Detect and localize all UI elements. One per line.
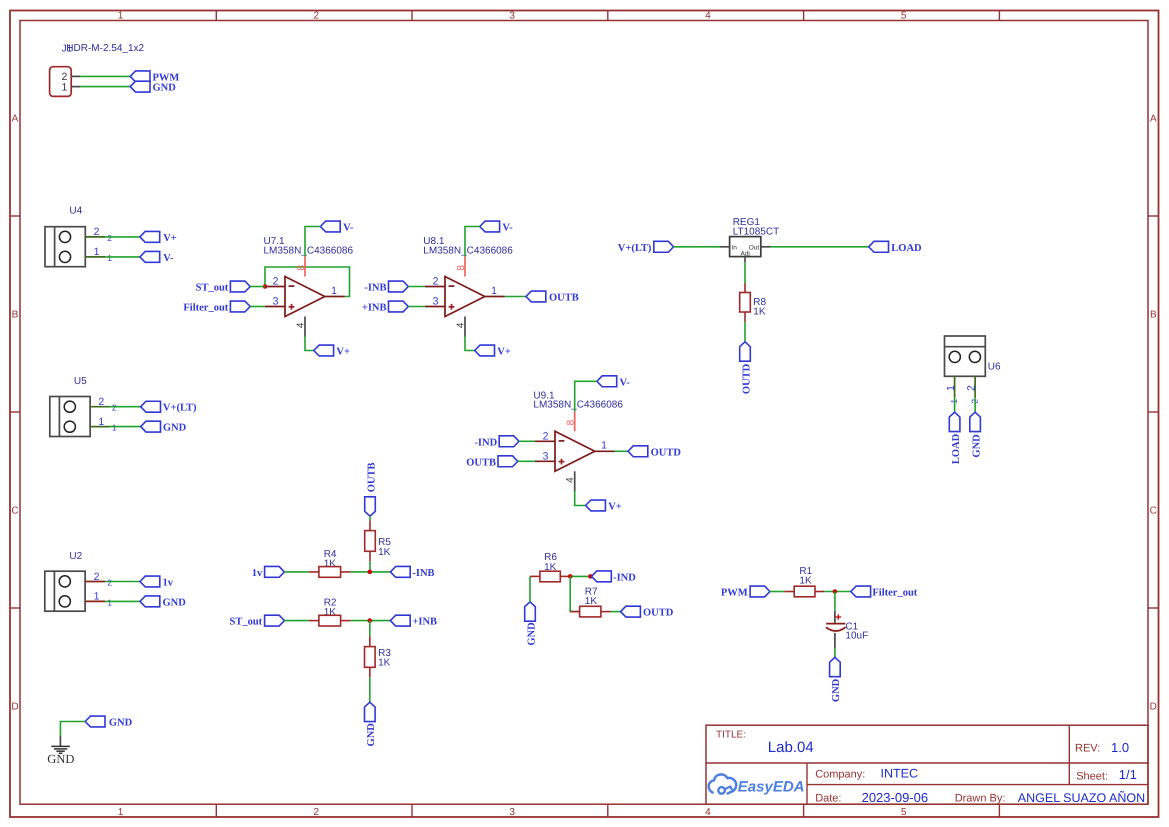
J1 pin 1: [71, 86, 80, 88]
wire U9.1 pin 1 to OUTD: [615, 450, 629, 452]
svg-text:V-: V-: [343, 223, 354, 234]
svg-text:C: C: [11, 506, 18, 517]
wire junction down to C1: [834, 592, 836, 611]
net flag V- (U9.1): [597, 376, 630, 388]
svg-text:1: 1: [94, 591, 100, 603]
svg-text:4: 4: [705, 807, 711, 818]
svg-text:1K: 1K: [378, 658, 391, 669]
svg-text:1: 1: [331, 285, 337, 297]
junction R1/C1/Filter_out: [833, 589, 838, 594]
EasyEDA logo: [709, 774, 805, 795]
U9.1 pin number 3: [543, 451, 549, 463]
ruler column numbers top: [118, 11, 907, 22]
wire REG1 Out to LOAD: [771, 246, 869, 248]
svg-text:GND: GND: [163, 597, 187, 608]
resistor R3: [365, 637, 376, 678]
wire V- to U9.1 pin 8: [575, 381, 597, 411]
svg-text:1: 1: [107, 597, 112, 607]
regulator REG1 body: [730, 237, 761, 258]
svg-text:3: 3: [273, 296, 279, 308]
svg-text:1: 1: [107, 253, 112, 263]
wire J1.2 to PWM: [80, 75, 130, 77]
resistor R5 value 1K: [378, 547, 391, 558]
svg-text:4: 4: [565, 477, 576, 483]
junction after R6: [568, 574, 573, 579]
svg-text:1K: 1K: [585, 596, 598, 607]
svg-text:10uF: 10uF: [845, 631, 868, 642]
wire ST_out to R2: [284, 620, 309, 622]
svg-text:+INB: +INB: [362, 303, 387, 314]
resistor R6 label: [544, 552, 557, 563]
wire U2.2 to 1v: [105, 581, 140, 583]
regulator REG1 value label LT1085CT: [733, 227, 780, 238]
net flag OUTD (U9.1 output): [628, 446, 681, 458]
svg-text:2: 2: [433, 276, 439, 288]
U8.1 pin 8: [464, 257, 466, 277]
net flag OUTB (above R5): [365, 462, 378, 516]
svg-text:In: In: [731, 244, 737, 251]
U8.1 pin number 1: [491, 285, 497, 297]
net flag GND: [140, 596, 186, 608]
svg-text:V+: V+: [163, 233, 177, 244]
resistor R5 label: [378, 537, 391, 548]
U6 pin 1: [954, 376, 956, 397]
svg-text:Filter_out: Filter_out: [183, 303, 228, 314]
sheet value 1/1: [1119, 767, 1137, 782]
svg-text:V-: V-: [620, 377, 631, 388]
svg-text:GND: GND: [153, 83, 177, 94]
wire Filter_out to U7.1 pin 3: [250, 306, 265, 308]
title block dividers: [706, 725, 1148, 804]
U5 pin 1: [90, 426, 110, 428]
U9.1 pin 2: [535, 440, 555, 442]
U5 pin number 1: [98, 416, 117, 433]
wire J1.1 to GND: [80, 86, 130, 88]
net flag V+ (U8.1): [475, 345, 511, 357]
U8.1 pin 3: [425, 306, 445, 308]
U2 pin 1: [85, 600, 105, 602]
wire U4.1 to V-: [105, 256, 140, 258]
wire U2.1 to GND: [105, 600, 140, 602]
junction R2/R3/+INB: [368, 618, 373, 623]
U4 pin 1: [85, 256, 105, 258]
svg-text:OUTD: OUTD: [741, 363, 752, 394]
U9.1 pin 8: [574, 412, 576, 432]
svg-text:2: 2: [543, 430, 549, 442]
resistor R3 label: [378, 648, 391, 659]
wire R2 to +INB: [351, 620, 391, 622]
U6 pin number 1: [945, 385, 959, 404]
svg-text:Filter_out: Filter_out: [872, 588, 917, 599]
wire R4 to -INB: [351, 571, 391, 573]
net flag GND: [141, 421, 187, 433]
svg-text:Drawn By:: Drawn By:: [955, 793, 1006, 805]
wire U6.2 to GND: [974, 398, 976, 413]
wire U5.2 to V+(LT): [110, 406, 141, 408]
U2 pin 2: [85, 581, 105, 583]
svg-text:PWM: PWM: [721, 588, 748, 599]
resistor R7 value 1K: [585, 596, 598, 607]
title block TITLE label: [716, 729, 746, 740]
date value 2023-09-06: [862, 790, 929, 805]
svg-text:GND: GND: [109, 718, 133, 729]
net flag V-: [140, 251, 174, 263]
net flag 1v: [140, 576, 174, 588]
net flag 1v (R4 input): [252, 566, 285, 578]
svg-text:2: 2: [98, 396, 104, 408]
resistor R4 label: [324, 549, 337, 560]
svg-text:-INB: -INB: [364, 283, 386, 294]
svg-text:1: 1: [112, 423, 117, 433]
svg-text:INTEC: INTEC: [881, 766, 919, 780]
op-amp U8.1 refdes label: [423, 236, 445, 247]
capacitor C1 value 10uF: [845, 631, 868, 642]
ground symbol GND text: [47, 752, 74, 766]
svg-text:U5: U5: [74, 376, 87, 387]
svg-text:A: A: [1150, 114, 1157, 125]
svg-text:2: 2: [94, 571, 100, 583]
wire U7.1 pin 4 to V+: [305, 337, 314, 351]
net flag -IND (node): [592, 571, 637, 583]
net flag PWM (R1 input): [721, 586, 770, 598]
wire ST_out to U7.1 pin 2: [250, 286, 265, 288]
svg-text:V+: V+: [336, 347, 350, 358]
svg-text:B: B: [1150, 310, 1157, 321]
U4 pin 2: [85, 236, 105, 238]
U9.1 pin number 2: [543, 430, 549, 442]
U9.1 pin 4: [574, 471, 576, 491]
svg-text:LM358N_C4366086: LM358N_C4366086: [264, 245, 354, 256]
svg-text:U4: U4: [69, 206, 82, 217]
op-amp U7.1 refdes label: [264, 236, 286, 247]
resistor R7: [570, 606, 610, 617]
wire V- to U8.1 pin 8: [465, 227, 480, 257]
wire U6.1 to LOAD: [954, 398, 956, 413]
wire R6 to -IND flag: [570, 575, 591, 577]
svg-text:A: A: [12, 114, 19, 125]
svg-text:Sheet:: Sheet:: [1076, 771, 1108, 783]
wire U7.1 feedback loop: [265, 267, 350, 297]
svg-text:Company:: Company:: [815, 768, 865, 780]
U4 pin number 1: [94, 246, 113, 263]
net flag V+(LT): [141, 401, 197, 413]
svg-text:U2: U2: [69, 551, 82, 562]
wire R1 to Filter_out: [824, 591, 850, 593]
wire -IND to U9.1 pin 2: [519, 440, 535, 442]
svg-text:1: 1: [491, 285, 497, 297]
svg-text:3: 3: [433, 296, 439, 308]
U2 pin number 1: [94, 591, 113, 608]
svg-text:2023-09-06: 2023-09-06: [862, 790, 929, 805]
U5 pin 2: [90, 406, 110, 408]
svg-text:2: 2: [94, 226, 100, 238]
svg-text:1K: 1K: [799, 576, 812, 587]
U7.1 pin number 3: [273, 296, 279, 308]
net flag PWM: [130, 71, 179, 83]
wire -INB to U8.1 pin 2: [408, 286, 425, 288]
svg-text:1: 1: [61, 81, 67, 93]
net flag OUTB (U8.1 output): [526, 291, 579, 303]
svg-text:GND: GND: [366, 723, 377, 747]
svg-text:2: 2: [107, 578, 112, 588]
title block border: [706, 725, 1148, 804]
J1 pin number 1: [61, 81, 67, 93]
svg-text:1: 1: [945, 385, 957, 391]
U9.1 pin number 4: [565, 477, 576, 483]
svg-text:1v: 1v: [252, 568, 263, 579]
svg-text:1v: 1v: [163, 578, 174, 589]
net flag ST_out (R2 input): [230, 615, 285, 627]
svg-text:OUTB: OUTB: [366, 462, 377, 492]
U8.1 pin number 2: [433, 276, 439, 288]
U7.1 pin 4: [304, 317, 306, 337]
svg-text:GND: GND: [526, 622, 537, 646]
svg-text:1: 1: [98, 416, 104, 428]
op-amp U7.1 body: [285, 277, 325, 317]
regulator REG1 refdes label: [733, 217, 761, 228]
title block Date label: [815, 793, 841, 805]
U8.1 pin number 8: [456, 265, 467, 271]
junction at -IND flag: [588, 574, 593, 579]
U7.1 pin number 8: [296, 265, 307, 271]
svg-text:-IND: -IND: [613, 572, 636, 583]
net flag V- (U7.1): [320, 221, 354, 233]
op-amp U9.1 refdes label: [533, 390, 555, 401]
svg-text:B: B: [12, 310, 19, 321]
net flag -INB (U8.1 pin 2): [364, 281, 408, 293]
ground symbol: [51, 746, 70, 753]
U8.1 pin 1: [485, 296, 505, 298]
connector J1 value label HDR-M-2.54_1x2: [66, 43, 144, 54]
svg-text:D: D: [11, 702, 18, 713]
connector U5 refdes label: [74, 376, 87, 387]
net flag GND (below C1): [830, 657, 843, 702]
U7.1 pin number 2: [273, 276, 279, 288]
net flag LOAD (U6): [949, 412, 962, 464]
U6 pin number 2: [965, 385, 979, 404]
svg-text:8: 8: [296, 265, 307, 271]
svg-text:V+(LT): V+(LT): [163, 403, 197, 414]
U9.1 pin 1: [595, 450, 615, 452]
rev value 1.0: [1111, 740, 1129, 755]
net flag ST_out: [196, 281, 251, 293]
svg-text:LOAD: LOAD: [951, 433, 962, 464]
wire junction down to R7: [570, 576, 579, 611]
wire R7 to OUTD flag: [611, 611, 621, 613]
svg-text:REV:: REV:: [1075, 743, 1100, 755]
svg-text:V-: V-: [163, 253, 174, 264]
connector U2 refdes label: [69, 551, 82, 562]
wire R3 to GND flag: [369, 677, 371, 702]
svg-text:ST_out: ST_out: [230, 617, 263, 628]
wire +INB to U8.1 pin 3: [408, 306, 425, 308]
resistor R6: [530, 571, 570, 582]
svg-text:1: 1: [118, 11, 124, 22]
svg-text:D: D: [1150, 702, 1157, 713]
op-amp U8.1 value label: [423, 245, 513, 256]
U8.1 pin number 3: [433, 296, 439, 308]
resistor R3 value 1K: [378, 658, 391, 669]
junction R4/R5/-INB: [368, 570, 373, 575]
svg-text:V-: V-: [502, 223, 513, 234]
U6 pin 2: [974, 376, 976, 397]
svg-text:Out: Out: [749, 244, 760, 251]
svg-text:-IND: -IND: [474, 437, 497, 448]
svg-text:+INB: +INB: [412, 617, 437, 628]
resistor R8 label: [753, 297, 766, 308]
U7.1 pin 3: [265, 306, 285, 308]
svg-text:3: 3: [543, 451, 549, 463]
wire U8.1 pin 4 to V+: [465, 337, 475, 351]
net flag GND (U6): [970, 412, 983, 457]
net flag +INB (node): [390, 615, 437, 627]
net flag Filter_out (U7.1 pin 3): [183, 301, 250, 313]
op-amp U8.1 body: [445, 277, 485, 317]
net flag GND (R6 input): [525, 602, 538, 646]
resistor R1 value 1K: [799, 576, 812, 587]
net flag OUTD (below R8): [740, 342, 753, 394]
wire junction to R3: [369, 621, 371, 637]
wire R5 to junction: [369, 561, 371, 572]
connector U6 refdes label: [988, 362, 1001, 373]
resistor R1 label: [799, 566, 812, 577]
net flag V+(LT) (REG1 input): [618, 241, 674, 253]
net flag V+: [140, 231, 177, 243]
resistor R1: [784, 586, 824, 597]
U8.1 pin number 4: [456, 322, 467, 328]
svg-text:1/1: 1/1: [1119, 767, 1137, 782]
op-amp U9.1 body: [555, 431, 595, 471]
net flag OUTB (U9.1 pin 3): [466, 456, 518, 468]
U9.1 pin 3: [535, 460, 555, 462]
resistor R2: [309, 615, 351, 626]
title block Sheet label: [1076, 771, 1108, 783]
U5 pin number 2: [98, 396, 117, 413]
resistor R4 value 1K: [324, 558, 337, 569]
svg-text:ST_out: ST_out: [196, 283, 229, 294]
svg-text:LM358N_C4366086: LM358N_C4366086: [423, 245, 513, 256]
U7.1 pin number 4: [296, 322, 307, 328]
connector U4 body: [45, 227, 85, 267]
resistor R6 value 1K: [544, 562, 557, 573]
svg-text:2: 2: [107, 233, 112, 243]
wire R8 to OUTD flag: [744, 322, 746, 342]
title Lab.04: [768, 739, 814, 756]
wire PWM to R1: [770, 591, 784, 593]
connector U2 body: [45, 571, 85, 611]
drawn by value ANGEL SUAZO ANON: [1018, 791, 1145, 805]
net flag V+ (U7.1): [314, 345, 350, 357]
svg-text:1K: 1K: [378, 547, 391, 558]
connector U5 body: [50, 397, 90, 437]
svg-text:8: 8: [566, 419, 577, 425]
net flag V- (U8.1): [480, 221, 513, 233]
company value INTEC: [881, 766, 919, 780]
svg-text:4: 4: [456, 322, 467, 328]
net flag +INB (U8.1 pin 3): [362, 301, 408, 313]
J1 pin number 2: [61, 71, 67, 83]
net flag -IND (U9.1 pin 2): [474, 436, 519, 448]
svg-text:V+: V+: [497, 347, 511, 358]
svg-text:LM358N_C4366086: LM358N_C4366086: [533, 400, 623, 411]
resistor R7 label: [585, 586, 598, 597]
svg-text:2: 2: [314, 807, 320, 818]
net flag GND (below R3): [365, 702, 378, 746]
svg-text:Date:: Date:: [815, 793, 841, 805]
net flag Filter_out (node): [851, 586, 918, 598]
svg-text:2: 2: [112, 403, 117, 413]
resistor R4: [309, 567, 351, 578]
svg-text:3: 3: [509, 11, 515, 22]
title block Company label: [815, 768, 865, 780]
net flag OUTD (R7 output): [621, 606, 674, 618]
wire REG1 Adj to R8: [744, 262, 746, 283]
net flag GND: [130, 81, 176, 93]
wire U8.1 pin 1 to OUTB: [505, 296, 526, 298]
svg-text:5: 5: [901, 807, 907, 818]
svg-text:OUTB: OUTB: [466, 457, 496, 468]
op-amp U9.1 value label: [533, 400, 623, 411]
wire OUTB to U9.1 pin 3: [518, 460, 535, 462]
svg-text:C: C: [1150, 506, 1157, 517]
svg-text:3: 3: [509, 807, 515, 818]
svg-text:4: 4: [705, 11, 711, 22]
svg-text:HDR-M-2.54_1x2: HDR-M-2.54_1x2: [66, 43, 144, 54]
svg-text:EasyEDA: EasyEDA: [738, 779, 805, 796]
svg-text:Adj: Adj: [740, 250, 749, 257]
svg-text:1: 1: [118, 807, 124, 818]
svg-text:LOAD: LOAD: [891, 243, 922, 254]
svg-text:GND: GND: [831, 678, 842, 702]
wire V+(LT) to REG1 In: [674, 246, 720, 248]
svg-text:OUTD: OUTD: [651, 447, 682, 458]
U8.1 pin 2: [425, 286, 445, 288]
REG1 Adj pin: [744, 257, 746, 262]
wire GND flag to R6: [529, 576, 531, 601]
title block REV label: [1075, 743, 1100, 755]
svg-text:GND: GND: [163, 423, 187, 434]
net flag -INB (node): [390, 566, 434, 578]
connector U6 body: [945, 336, 986, 376]
resistor R8: [740, 283, 751, 322]
svg-text:2: 2: [273, 276, 279, 288]
wire U5.1 to GND: [110, 426, 141, 428]
svg-text:1K: 1K: [753, 307, 766, 318]
junction at U7.1 pin 2: [263, 284, 268, 289]
svg-text:GND: GND: [47, 752, 74, 766]
svg-text:-INB: -INB: [412, 568, 434, 579]
ruler column numbers bottom: [118, 807, 907, 818]
connector U4 refdes label: [69, 206, 82, 217]
svg-text:1.0: 1.0: [1111, 740, 1129, 755]
connector J1 body: [50, 67, 72, 97]
wire C1 to GND flag: [834, 648, 836, 657]
svg-text:5: 5: [901, 11, 907, 22]
ground symbol stem: [59, 736, 61, 746]
resistor R2 label: [324, 598, 337, 609]
J1 pin 2: [71, 75, 80, 77]
capacitor C1 label: [845, 621, 858, 632]
U7.1 pin 1: [325, 296, 345, 298]
wire U4.2 to V+: [105, 236, 140, 238]
svg-text:V+(LT): V+(LT): [618, 243, 652, 254]
ruler row letters right: [1150, 114, 1157, 713]
svg-text:V+: V+: [608, 502, 622, 513]
wire U9.1 pin 4 to V+: [575, 491, 586, 506]
capacitor C1: [826, 611, 846, 648]
svg-text:1: 1: [601, 440, 607, 452]
wire V- to U7.1 pin 8: [305, 227, 320, 257]
